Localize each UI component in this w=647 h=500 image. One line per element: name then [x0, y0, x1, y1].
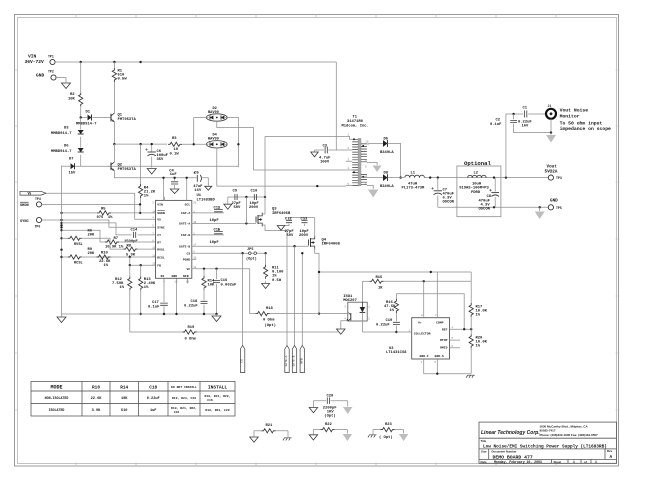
svg-text:C15: C15	[214, 228, 222, 232]
wire zener net	[75, 165, 238, 167]
svg-text:0.22uF: 0.22uF	[147, 397, 160, 401]
wire opto LED anode riser	[361, 281, 363, 302]
svg-text:22.6K: 22.6K	[91, 397, 103, 401]
svg-text:VIN: VIN	[157, 203, 163, 207]
capacitor C16	[216, 269, 218, 280]
wire Q4 drain	[314, 218, 316, 238]
ground input	[62, 83, 71, 89]
svg-text:TP4: TP4	[35, 197, 41, 201]
svg-text:R3: R3	[172, 137, 177, 141]
wire secondary centre tap to ground	[369, 163, 377, 166]
svg-text:PL173-473M: PL173-473M	[402, 187, 426, 191]
flag NFB	[300, 346, 304, 373]
svg-text:PGND: PGND	[183, 258, 191, 262]
svg-text:R2: R2	[70, 93, 75, 97]
ground U3	[466, 375, 475, 378]
resistor R23	[373, 429, 381, 431]
dual diode D2 BAV99	[206, 114, 227, 121]
svg-text:B340LA: B340LA	[380, 151, 394, 155]
svg-text:R18: R18	[266, 307, 274, 311]
svg-text:10: 10	[365, 141, 369, 144]
svg-text:VC: VC	[186, 267, 190, 271]
svg-text:To 50 ohm input: To 50 ohm input	[560, 120, 603, 126]
capacitor C5	[196, 175, 198, 182]
capacitor C4	[174, 178, 176, 181]
wire NFB flag riser	[301, 253, 303, 346]
resistor R13	[140, 265, 142, 276]
svg-text:GND-S: GND-S	[435, 354, 444, 358]
resistor R21	[254, 430, 262, 432]
svg-text:RCSL: RCSL	[157, 255, 165, 259]
svg-text:R10: R10	[92, 385, 100, 390]
svg-text:D3: D3	[64, 127, 69, 131]
svg-text:NON-ISOLATED: NON-ISOLATED	[45, 396, 69, 400]
svg-text:C18: C18	[149, 385, 157, 390]
ground J1	[550, 133, 552, 135]
svg-text:C18: C18	[191, 300, 199, 304]
svg-text:15V: 15V	[69, 172, 77, 176]
svg-text:SYNC: SYNC	[20, 220, 29, 224]
wire secondary top to D5	[367, 143, 383, 145]
wire output rail	[424, 177, 548, 179]
svg-text:LT1683BD: LT1683BD	[197, 199, 216, 203]
svg-text:Q1: Q1	[118, 114, 123, 118]
capacitor C14	[134, 232, 136, 238]
svg-text:0 Ohm: 0 Ohm	[185, 337, 197, 342]
svg-text:10: 10	[152, 247, 156, 250]
svg-text:TP2: TP2	[48, 70, 54, 74]
svg-text:R21: R21	[266, 424, 274, 428]
resistor R17	[470, 272, 472, 303]
wire U1 top stubs	[161, 197, 165, 201]
svg-text:FMT953TA: FMT953TA	[118, 118, 137, 122]
svg-text:510: 510	[121, 409, 127, 413]
svg-text:GATE-A: GATE-A	[285, 355, 288, 366]
svg-text:impedance on scope: impedance on scope	[560, 126, 611, 132]
svg-text:DO NOT INSTALL: DO NOT INSTALL	[171, 385, 197, 389]
wire collector net	[362, 331, 396, 333]
ground opto	[337, 329, 346, 334]
capacitor C1	[525, 111, 527, 118]
capacitor C2	[513, 114, 515, 119]
wire R16 top to REF	[396, 294, 464, 330]
resistor R22	[313, 429, 320, 431]
flag CS	[240, 346, 244, 373]
svg-text:1K: 1K	[378, 286, 383, 290]
svg-text:20K: 20K	[88, 252, 96, 256]
wire snubber top	[228, 196, 265, 198]
capacitor C17	[163, 278, 165, 302]
svg-text:0 Ohm: 0 Ohm	[263, 318, 275, 323]
svg-text:10K: 10K	[68, 98, 76, 102]
phase dot T1 secondary	[362, 145, 364, 147]
svg-text:0.22uF: 0.22uF	[376, 323, 390, 327]
winding T1 secondary	[361, 144, 367, 185]
wire opto emitter ground	[341, 321, 348, 329]
svg-text:Rev: Rev	[607, 449, 613, 453]
inductor L1	[405, 175, 425, 177]
svg-text:ISOLATED: ISOLATED	[49, 408, 65, 412]
svg-text:36V-72V: 36V-72V	[25, 59, 45, 65]
svg-text:OSCON: OSCON	[479, 207, 491, 211]
svg-text:Title: Title	[481, 439, 487, 443]
svg-text:SHDN: SHDN	[157, 211, 165, 215]
svg-text:12: 12	[193, 266, 197, 269]
svg-text:R22: R22	[325, 423, 333, 427]
wire CS	[192, 252, 266, 254]
resistor R7	[105, 240, 119, 244]
wire RMID stub	[450, 347, 461, 349]
capacitor C20	[313, 400, 347, 402]
wire D4 centre tap	[217, 148, 346, 186]
wire D2 right	[227, 118, 238, 168]
svg-text:1%: 1%	[390, 309, 395, 313]
wire gate B	[192, 245, 309, 247]
svg-text:RTOP: RTOP	[440, 338, 448, 342]
wire VIN to C3	[335, 62, 337, 150]
wire D2 centre tap	[217, 122, 346, 170]
svg-text:SS: SS	[161, 274, 165, 278]
title block	[479, 422, 617, 463]
svg-text:GATE-A: GATE-A	[179, 222, 190, 226]
svg-text:1%: 1%	[272, 275, 277, 279]
wire VIN rail	[55, 61, 336, 63]
svg-text:1uF: 1uF	[170, 173, 178, 177]
svg-text:GND: GND	[172, 274, 178, 278]
svg-text:CS: CS	[186, 252, 190, 256]
optional box	[457, 166, 501, 217]
resistor R16	[395, 294, 397, 299]
svg-text:RCSL: RCSL	[74, 262, 83, 266]
svg-text:CS: CS	[241, 359, 244, 363]
svg-text:976 1%: 976 1%	[97, 216, 114, 220]
wire output ground rail	[438, 206, 549, 208]
capacitor C7	[437, 178, 439, 190]
wire Q2 emitter to VIN cap rail	[114, 171, 196, 178]
svg-text:IRF6406B: IRF6406B	[322, 243, 341, 247]
diode D7 zener	[80, 155, 82, 166]
svg-text:Monday, February 10, 2003: Monday, February 10, 2003	[494, 460, 542, 464]
svg-text:95035-7417: 95035-7417	[540, 429, 556, 433]
ground R11	[262, 284, 270, 289]
IC U1 LT1683	[156, 200, 192, 278]
svg-text:(Opt): (Opt)	[246, 257, 257, 262]
svg-text:Vout Noise: Vout Noise	[560, 108, 589, 114]
svg-text:100V: 100V	[320, 161, 330, 165]
flag V5	[20, 191, 46, 195]
svg-text:NFB: NFB	[300, 358, 303, 364]
ground R22 right	[343, 434, 353, 441]
svg-text:C5: C5	[194, 171, 199, 175]
svg-text:Midcom, Inc.: Midcom, Inc.	[342, 124, 369, 129]
wire SYNC to U1	[42, 220, 156, 227]
svg-text:T1: T1	[353, 116, 358, 120]
svg-text:(Opt): (Opt)	[324, 413, 335, 418]
test point TP3	[548, 175, 553, 180]
svg-text:COLLECTOR: COLLECTOR	[414, 331, 431, 335]
svg-text:Date: Date	[481, 460, 488, 464]
svg-text:D8: D8	[384, 172, 389, 176]
svg-text:C16: C16	[221, 279, 229, 283]
ground left bus	[61, 314, 63, 317]
svg-text:V5: V5	[157, 218, 161, 222]
svg-text:REF: REF	[442, 327, 448, 331]
svg-text:D7: D7	[69, 158, 74, 162]
svg-text:BAV99: BAV99	[208, 138, 219, 142]
optocoupler ISO1	[348, 302, 367, 321]
ground C20 left	[309, 408, 318, 413]
svg-text:( Opt): ( Opt)	[379, 435, 393, 440]
wire R15 rail	[363, 280, 370, 282]
svg-text:R8: R8	[127, 245, 132, 249]
svg-text:R10: R10	[101, 251, 109, 255]
svg-text:1%: 1%	[104, 264, 109, 268]
svg-text:IRF6406B: IRF6406B	[272, 212, 291, 216]
capacitor C18	[201, 301, 208, 303]
resistor R9	[62, 256, 68, 258]
svg-text:GCL: GCL	[185, 203, 191, 207]
svg-text:Document Number: Document Number	[492, 449, 518, 453]
svg-text:0.22uF: 0.22uF	[184, 304, 198, 308]
svg-text:11: 11	[152, 254, 156, 257]
svg-text:U1: U1	[197, 194, 202, 198]
svg-text:RVSL: RVSL	[74, 243, 83, 247]
capacitor C19	[393, 322, 400, 324]
resistor R19	[130, 314, 183, 332]
svg-text:Sheet: Sheet	[554, 460, 562, 464]
wire GATE-B flag riser	[294, 246, 296, 346]
svg-text:C17: C17	[152, 301, 160, 305]
test point TP6	[36, 217, 41, 222]
svg-text:CT: CT	[157, 233, 161, 237]
wire VC	[192, 269, 250, 314]
wire SHDN to U1	[42, 204, 156, 213]
diode D5	[383, 140, 388, 147]
wire U3 ground rail	[424, 359, 472, 374]
capacitor C9	[235, 194, 237, 200]
wire monitor riser	[505, 114, 507, 178]
resistor R10	[97, 255, 111, 259]
ground bus left	[61, 166, 63, 315]
connector J1	[546, 109, 556, 119]
capacitor C3	[315, 150, 346, 152]
svg-text:TP3: TP3	[556, 176, 562, 180]
wire J1 shield	[550, 119, 552, 133]
capacitor C8	[494, 178, 496, 192]
ground secondary tap	[373, 166, 382, 173]
svg-text:MOC207: MOC207	[343, 299, 357, 303]
svg-text:D6: D6	[64, 145, 69, 149]
svg-text:16: 16	[193, 257, 197, 260]
resistor R20	[470, 329, 472, 334]
wire U1 GCL	[186, 178, 188, 201]
wire Q4 source drop	[318, 272, 320, 314]
ground R23 right	[399, 434, 409, 441]
resistor R14	[203, 269, 205, 276]
svg-text:FDRD: FDRD	[471, 191, 481, 195]
wire Q3 source to GATE-A flag	[262, 225, 287, 346]
svg-text:of: of	[584, 460, 587, 464]
svg-text:A: A	[610, 455, 613, 460]
svg-text:Q2: Q2	[118, 164, 123, 168]
flag GATE-A	[285, 346, 289, 373]
resistor R15	[370, 279, 384, 283]
phase dot T1 primary	[353, 138, 355, 140]
ground output	[539, 207, 541, 211]
resistor R1	[113, 62, 115, 68]
capacitor C15	[214, 232, 223, 234]
svg-text:1%: 1%	[144, 286, 149, 290]
ground wire bottom left	[62, 313, 217, 315]
svg-text:R14: R14	[120, 385, 128, 390]
ground R22 left	[309, 435, 318, 440]
svg-text:C20: C20	[327, 394, 335, 398]
svg-text:0.5W: 0.5W	[272, 279, 282, 283]
wire PGND stub	[192, 258, 197, 260]
svg-text:0.5W: 0.5W	[118, 78, 128, 82]
flag GATE-B	[292, 346, 296, 373]
transistor Q1	[110, 114, 112, 122]
svg-text:(Opt): (Opt)	[265, 323, 276, 328]
wire transformer primary rail	[265, 136, 346, 214]
svg-text:INSTALL: INSTALL	[208, 385, 228, 391]
diode D8	[369, 177, 383, 179]
svg-text:Size: Size	[481, 449, 487, 453]
wire RCSL to U1	[96, 256, 156, 258]
svg-text:200V: 200V	[249, 206, 259, 210]
wire T1 primary pins	[346, 136, 352, 185]
resistor R11	[265, 253, 267, 265]
svg-text:B340LA: B340LA	[380, 185, 394, 189]
svg-text:C11: C11	[214, 206, 222, 210]
svg-text:VIN: VIN	[28, 54, 37, 60]
svg-text:C9: C9	[233, 190, 238, 194]
svg-text:3.9K: 3.9K	[92, 409, 101, 413]
svg-text:18: 18	[193, 221, 197, 224]
svg-text:50V: 50V	[287, 234, 295, 238]
svg-text:10pF: 10pF	[210, 219, 220, 223]
resistor R2	[80, 62, 82, 92]
svg-text:R19: R19	[188, 326, 196, 330]
svg-text:GND-F: GND-F	[420, 354, 429, 358]
svg-text:NFB: NFB	[183, 274, 189, 278]
dual diode D4 BAV99	[206, 141, 227, 148]
ground C9	[224, 204, 232, 209]
svg-text:CAP-B: CAP-B	[181, 233, 190, 237]
resistor R12	[129, 265, 131, 276]
wire V5 flag to U1	[46, 193, 156, 219]
svg-text:R18, R23, C20: R18, R23, C20	[205, 408, 229, 412]
svg-text:15: 15	[175, 281, 179, 284]
svg-text:TP6: TP6	[35, 225, 41, 229]
svg-text:16V: 16V	[522, 124, 530, 128]
resistor R3	[114, 143, 167, 145]
svg-text:14: 14	[152, 210, 156, 213]
svg-text:R5: R5	[101, 207, 106, 211]
svg-text:1%: 1%	[476, 314, 481, 318]
svg-text:5V@2A: 5V@2A	[545, 170, 558, 175]
svg-text:0.002uF: 0.002uF	[221, 283, 238, 287]
svg-text:10K: 10K	[208, 284, 216, 288]
svg-text:1%: 1%	[476, 345, 481, 349]
svg-text:31471R0: 31471R0	[347, 120, 364, 124]
wire RTOP stub	[450, 339, 461, 341]
resistor R8	[124, 247, 138, 251]
svg-text:0.1uF: 0.1uF	[148, 305, 160, 309]
wire FB	[130, 257, 156, 265]
svg-text:TP1: TP1	[48, 55, 54, 59]
capacitor C6	[151, 144, 153, 151]
svg-text:SYNC: SYNC	[157, 226, 165, 230]
svg-text:MODE: MODE	[50, 385, 62, 391]
svg-text:FB: FB	[157, 264, 161, 268]
table mode options	[31, 382, 235, 417]
wire U1 NFB pin	[187, 278, 189, 283]
svg-text:17: 17	[193, 244, 197, 247]
ground C5	[205, 186, 212, 190]
capacitor C13	[304, 218, 306, 220]
svg-text:C1: C1	[523, 107, 528, 111]
svg-text:200V: 200V	[299, 234, 309, 238]
svg-text:COMP: COMP	[436, 320, 444, 324]
svg-text:C16: C16	[207, 398, 213, 402]
wire C10-gate link	[245, 197, 247, 223]
ground R21 right	[283, 438, 292, 441]
capacitor C10	[254, 194, 256, 200]
svg-text:Optional: Optional	[464, 160, 491, 167]
ground C12	[277, 226, 285, 231]
svg-text:V+: V+	[418, 320, 422, 324]
diode D3	[80, 118, 82, 130]
wire U1 VIN from rail	[163, 178, 165, 201]
wire CT network	[62, 223, 132, 235]
svg-text:C3: C3	[323, 145, 328, 149]
resistor R18	[250, 313, 256, 315]
ground C20 right	[343, 407, 353, 414]
svg-text:Linear Technology Corp.: Linear Technology Corp.	[481, 430, 540, 436]
svg-text:C14: C14	[131, 229, 139, 233]
svg-text:R15: R15	[376, 276, 384, 280]
wire RT network	[62, 230, 106, 242]
svg-text:BAV99: BAV99	[208, 111, 219, 115]
wire U1 GND pin	[176, 278, 178, 314]
svg-text:C2: C2	[496, 119, 501, 123]
svg-text:D5: D5	[384, 138, 389, 142]
resistor R4	[140, 144, 142, 184]
wire TP2 to ground	[56, 78, 66, 83]
wire T1 secondary pins	[367, 144, 369, 186]
resistor R5	[62, 212, 98, 214]
wire monitor top	[506, 113, 523, 115]
svg-text:V5: V5	[28, 192, 32, 196]
test point TP5	[548, 205, 553, 210]
svg-text:1%: 1%	[144, 195, 149, 199]
svg-text:13: 13	[152, 263, 156, 266]
svg-text:R7: R7	[114, 237, 119, 241]
wire feedback top rail	[319, 271, 471, 273]
ground R21 left	[250, 437, 259, 442]
diode D6	[80, 137, 82, 148]
IC U3 LT1431	[412, 318, 450, 359]
capacitor C12	[288, 218, 290, 220]
ground secondary bottom	[368, 190, 379, 198]
wire REF	[450, 328, 472, 330]
svg-text:MMBD914-7: MMBD914-7	[51, 132, 72, 136]
wire CAP-A	[192, 212, 224, 214]
snubber mid rail	[289, 217, 315, 219]
ground C16	[216, 314, 218, 316]
diode D1	[81, 117, 87, 119]
